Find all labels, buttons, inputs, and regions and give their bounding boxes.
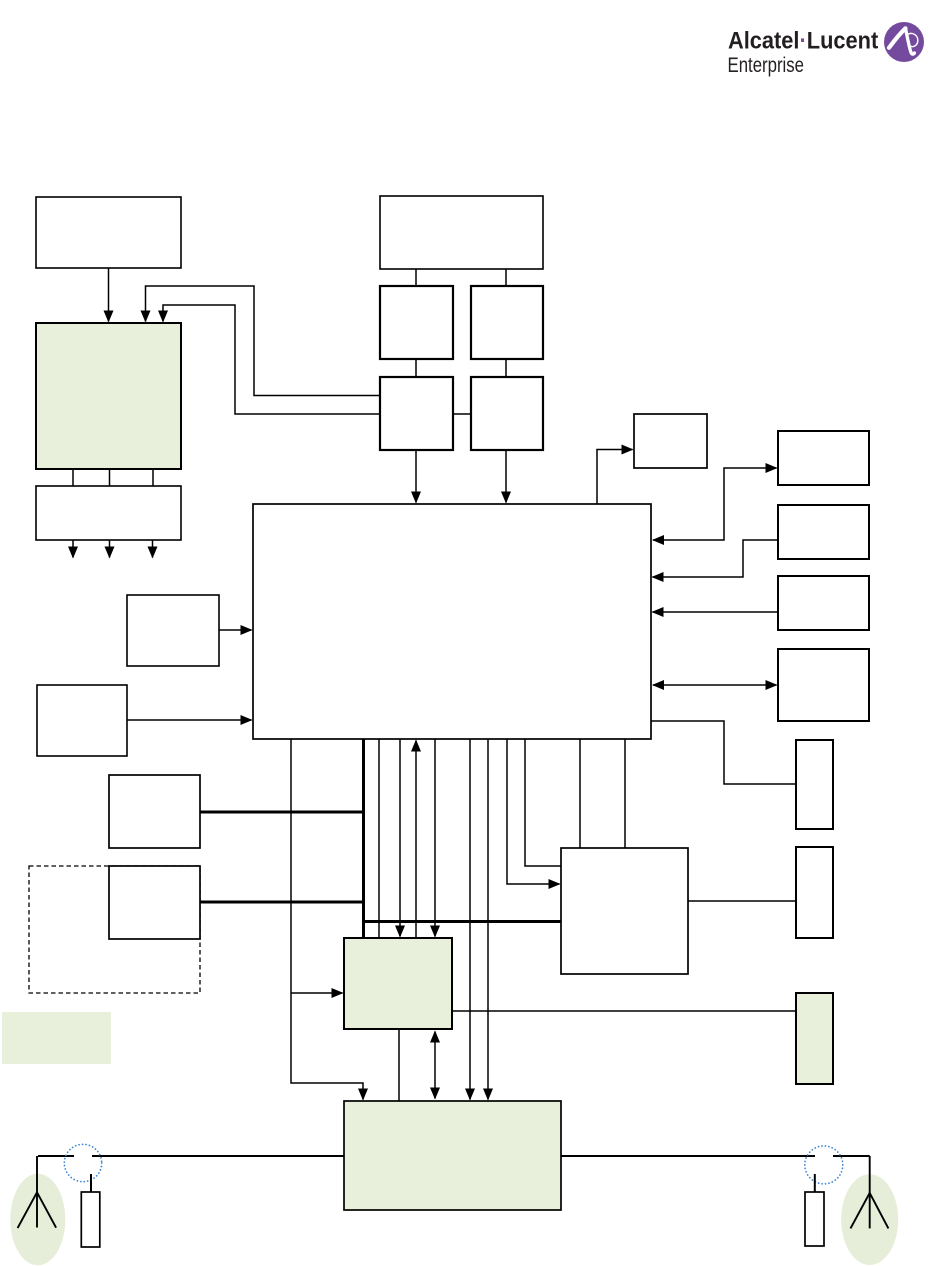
arrow M4 to CPU [505,450,507,503]
block B1 top-left [36,197,181,268]
thick bus CPU to RM [364,739,562,938]
thick bus L4 [200,901,364,904]
block R3 [778,576,869,630]
block L4 [109,866,200,939]
svg-text:Alcatel·Lucent: Alcatel·Lucent [728,26,878,53]
block L1 [127,595,219,666]
wire G2-G3 double arrow [434,1032,436,1099]
block R1 [778,431,869,485]
wire G2 to G3 plain [398,1029,400,1101]
link M3-M4 [453,413,471,415]
stub G1-B2 c [152,469,154,486]
arrow CPU to G2 b [434,739,436,937]
block TM top-middle [380,196,543,269]
wire CPU to RM arrow [507,739,560,884]
wire left contact [38,1155,74,1157]
arrow out B2 c [152,540,154,558]
logo wordmark Alcatel-Lucent [728,26,878,53]
wire G2 to TG [452,1010,796,1012]
wire RM to TB [688,900,796,902]
wire CPU to G2 plain [378,739,380,938]
wire G3 left feed [92,1155,344,1157]
block M1 [380,286,453,359]
green block TG tall [796,993,833,1084]
block R4 [778,649,869,721]
wire R3 to CPU arrow [653,611,779,613]
stub to load left [90,1174,92,1192]
stub M2-M4 [505,359,507,377]
wire CPU to RM top a [579,739,581,848]
arrow G2 to CPU up [415,741,417,939]
stub G1-B2 a [72,469,74,486]
block M4 [471,377,543,450]
small block S1 [634,414,707,468]
wire G3 right feed [561,1155,815,1157]
block M3 [380,377,453,450]
green ellipse right [841,1174,898,1265]
thick bus L3 [200,811,364,814]
block TA tall [796,740,833,829]
block B2 under G1 [36,486,181,540]
green ellipse left [10,1174,65,1265]
arrow CPU to G3 a [469,739,471,1100]
arrow M3 to CPU [415,450,417,503]
arrow out B2 b [109,540,111,558]
logo script A [889,28,918,54]
green block G3 bottom [344,1101,561,1210]
load rect left [81,1192,100,1247]
svg-text:Enterprise: Enterprise [728,54,805,77]
switch circle right [805,1146,843,1184]
block L3 [109,775,200,848]
green block G4 bottom-left [2,1012,111,1064]
arrow L2 to CPU [127,719,252,721]
logo subtitle Enterprise [728,54,805,77]
block L2 [37,685,127,756]
wire CPU to RM top b [624,739,626,848]
stub G1-B2 b [109,469,111,486]
arrow L1 to CPU [219,629,252,631]
dashed block D1 [29,866,200,993]
block M2 [471,286,543,359]
stub M1-M3 [415,359,417,377]
stub to load right [814,1174,816,1192]
block RM right-middle [561,848,688,974]
wire M3 to G1 arrow b [163,305,380,414]
wire CPU-R4 double arrow [653,684,777,686]
green block G1 [36,323,181,469]
block TB tall [796,847,833,938]
wire CPU-R1 double arrow [653,468,777,540]
wire CPU to RM plain [525,739,561,866]
central block CPU [253,504,651,739]
stub TM-M2 [505,269,507,286]
switch circle left [64,1144,101,1181]
antenna left [18,1156,57,1228]
stub TM-M1 [415,269,417,286]
logo purple circle [884,22,924,62]
wire right contact [833,1155,870,1157]
wire M3 to G1 arrow a [146,286,381,396]
arrow CPU to G2 a [399,739,401,937]
block R2 [778,505,869,559]
wire CPU to S1 arrow [597,450,633,505]
wire CPU to TA [651,721,796,784]
load rect right [805,1192,824,1246]
wire B1 to G1 arrow [108,268,110,322]
arrow branch to G2 left [291,992,343,994]
arrow out B2 a [72,540,74,558]
arrow CPU to G3 b [487,739,489,1100]
green block G2 central [344,938,452,1029]
antenna right [851,1156,889,1228]
wire R2 to CPU arrow [653,540,779,577]
wire CPU down left branch [291,739,363,1100]
